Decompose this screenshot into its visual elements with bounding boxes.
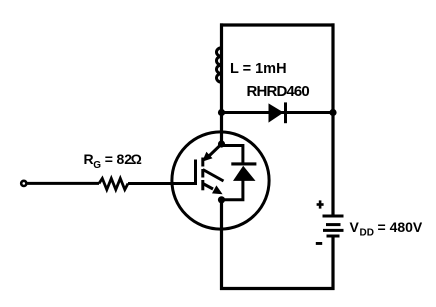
node B junction dot <box>329 109 336 116</box>
svg-text:R: R <box>84 151 94 167</box>
battery plus sign <box>317 200 324 208</box>
svg-text:V: V <box>350 219 360 235</box>
svg-text:=: = <box>105 151 113 167</box>
wire resistor to gate <box>128 182 197 185</box>
svg-text:Ω: Ω <box>131 151 142 167</box>
wire right rail upper <box>331 23 334 215</box>
wire emitter down <box>220 200 223 290</box>
label VDD = 480V <box>350 219 423 239</box>
wire collector down into circle <box>220 113 223 145</box>
battery VDD plates <box>323 216 344 236</box>
wire collector to internal diode cathode <box>222 146 243 165</box>
internal diode cathode bar <box>231 162 256 165</box>
diode D1 RHRD460 <box>269 102 286 123</box>
IGBT body bar dashed <box>201 158 204 191</box>
wire left vertical (top corner to inductor) <box>220 23 223 113</box>
svg-text:G: G <box>93 160 101 171</box>
IGBT gate bar <box>194 160 197 185</box>
wire gate input <box>28 182 100 185</box>
IGBT middle diagonal <box>203 170 224 182</box>
svg-text:= 480V: = 480V <box>378 219 423 235</box>
wire internal diode anode to emitter <box>222 180 243 200</box>
IGBT emitter diagonal with arrow <box>203 184 223 195</box>
wire top rail <box>220 23 335 26</box>
node A junction dot <box>218 109 225 116</box>
svg-text:DD: DD <box>360 228 374 239</box>
wire right rail lower <box>331 238 334 291</box>
node collector dot <box>218 140 225 147</box>
internal diode triangle <box>233 166 256 181</box>
IGBT collector diagonal with arrow <box>202 144 222 162</box>
wire diode branch horizontal <box>222 111 334 114</box>
transistor Q1 IGBT body circle <box>172 132 269 229</box>
label RG = 82ohm <box>84 151 142 171</box>
wire bottom rail <box>220 287 335 290</box>
svg-text:L = 1mH: L = 1mH <box>230 61 287 77</box>
node emitter dot <box>218 196 225 203</box>
resistor RG zigzag <box>99 178 128 189</box>
input terminal <box>21 181 26 186</box>
svg-text:RHRD460: RHRD460 <box>247 83 310 100</box>
battery minus sign <box>316 242 322 245</box>
inductor L1 <box>217 48 222 82</box>
